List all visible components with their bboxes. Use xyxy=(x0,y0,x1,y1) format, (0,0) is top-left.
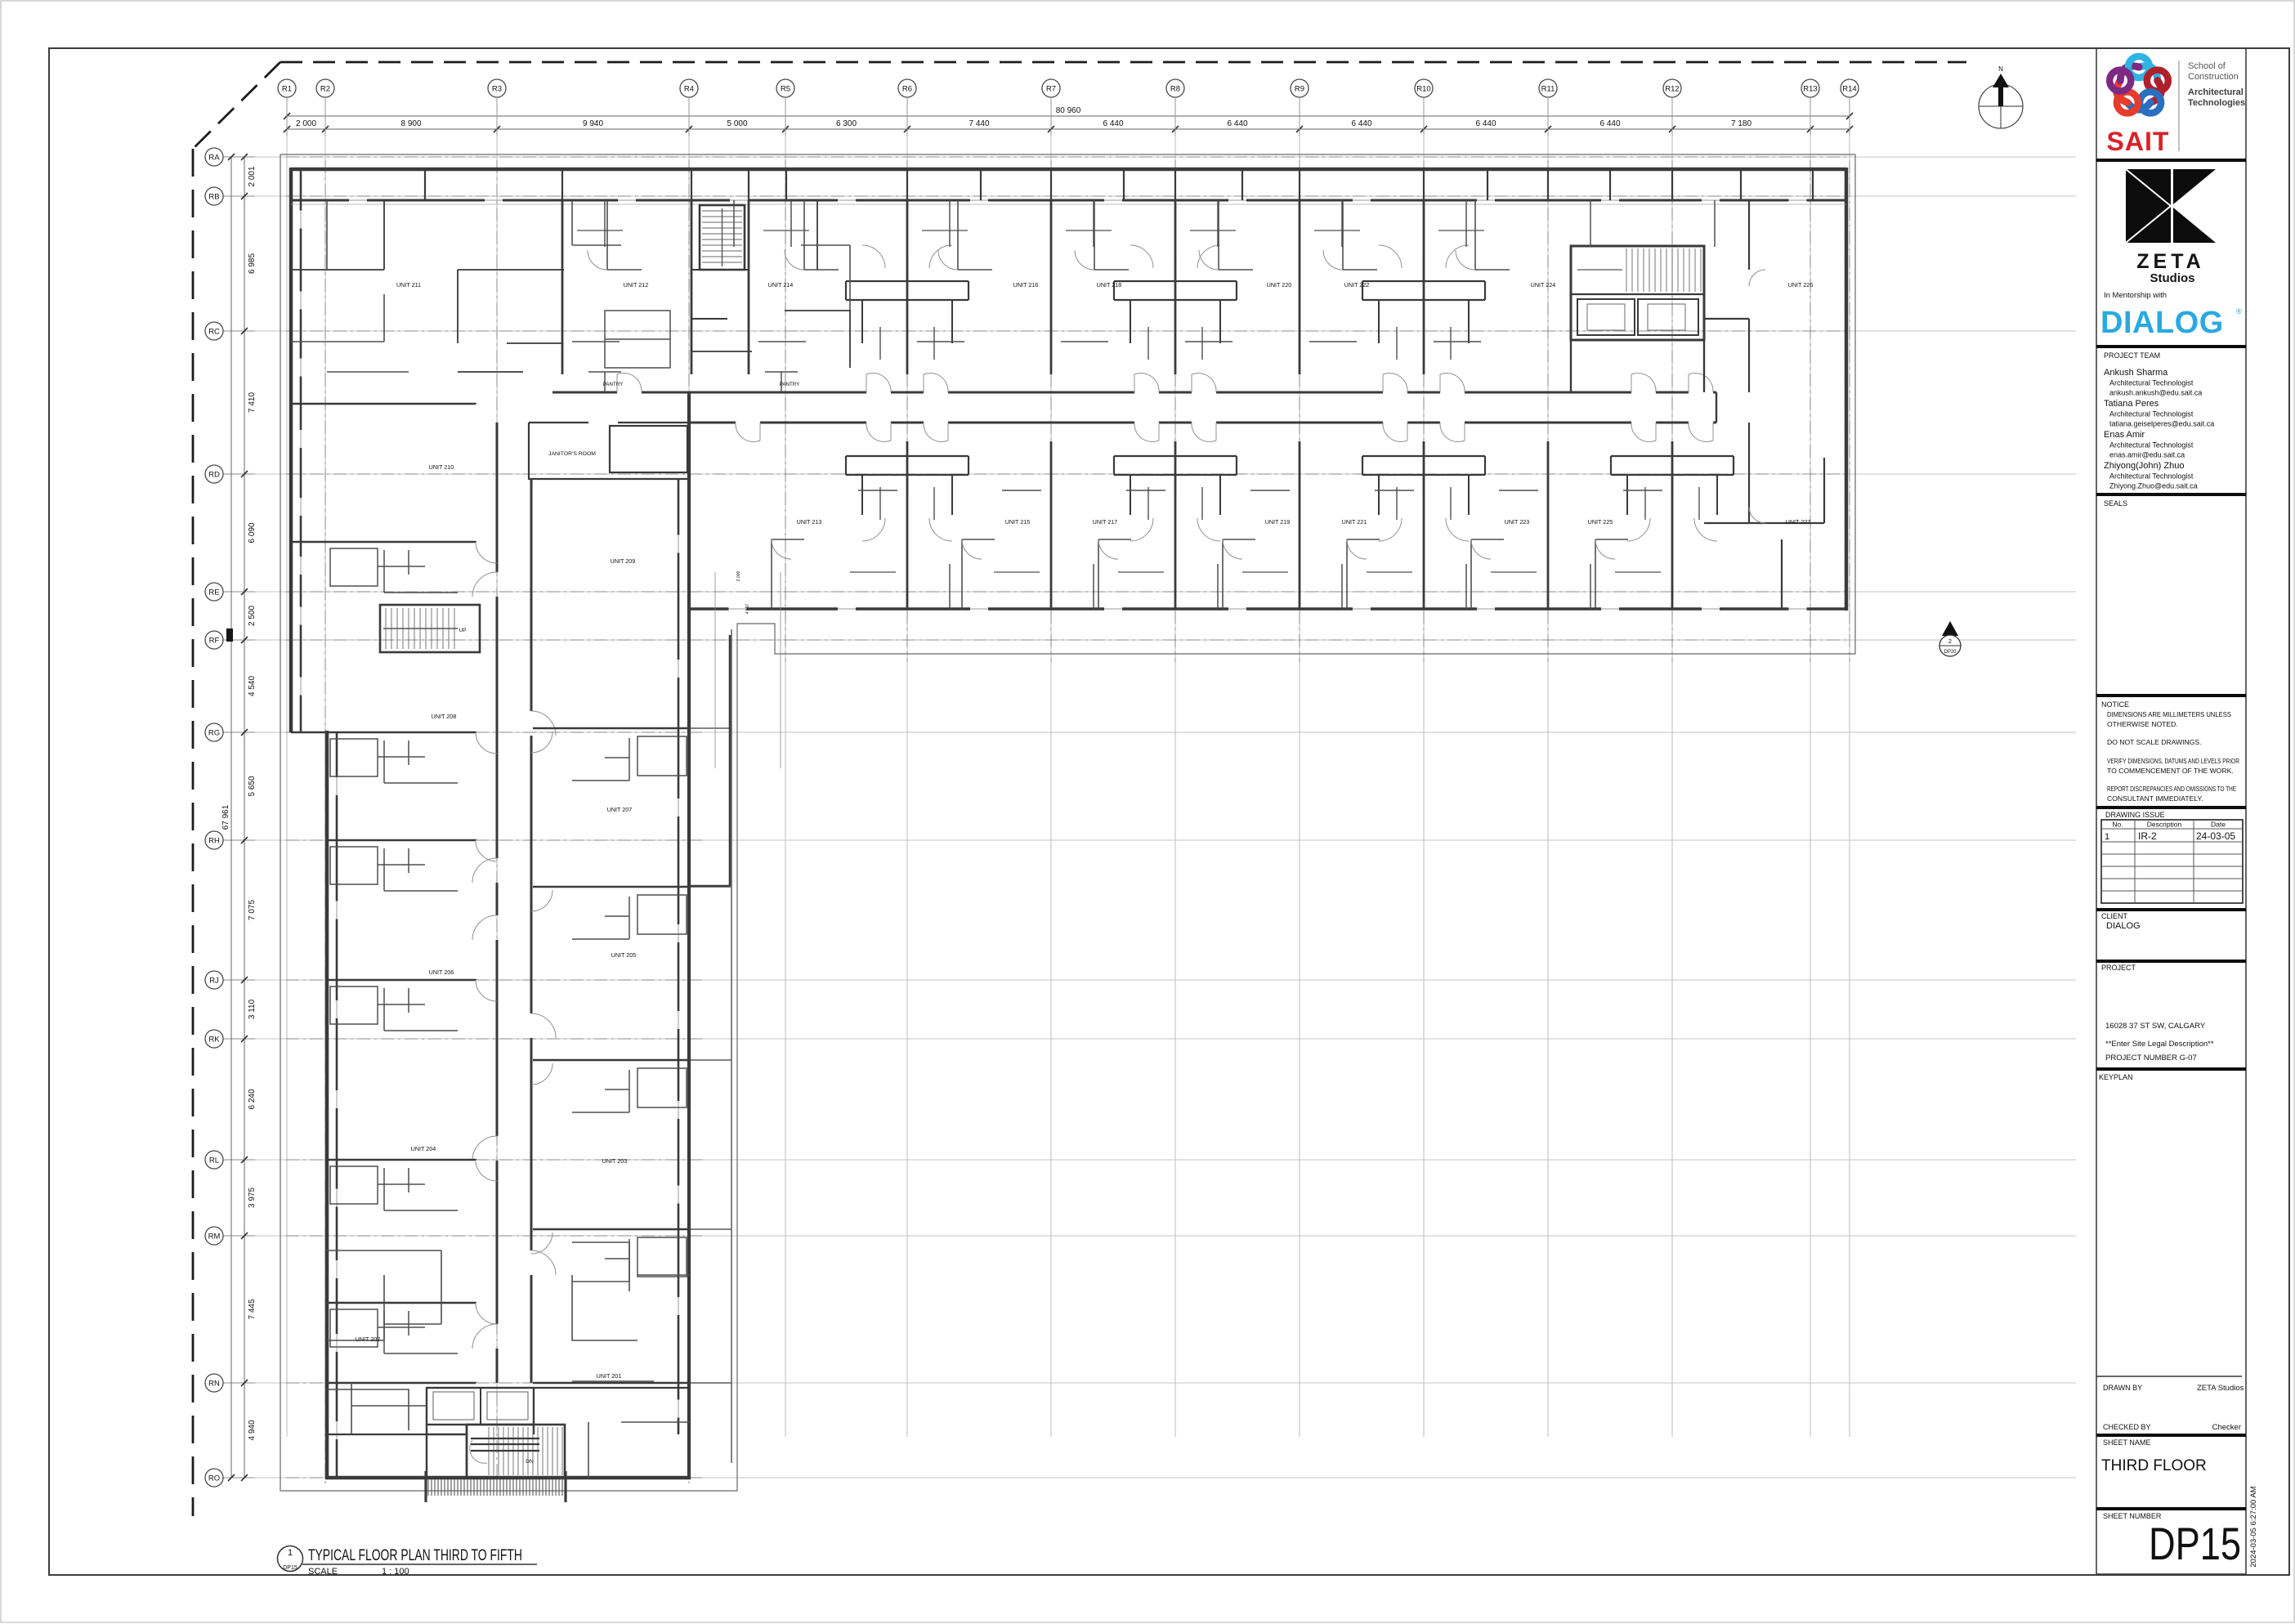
svg-text:Description: Description xyxy=(2147,821,2182,829)
title block divider y1756 xyxy=(2096,1434,2246,1437)
svg-text:2 500: 2 500 xyxy=(248,606,257,626)
svg-text:DIALOG: DIALOG xyxy=(2100,306,2224,340)
svg-text:R9: R9 xyxy=(1295,85,1304,94)
svg-text:Tatiana Peres: Tatiana Peres xyxy=(2104,399,2159,409)
svg-text:R8: R8 xyxy=(1170,85,1180,94)
svg-text:80 960: 80 960 xyxy=(1056,106,1081,115)
exit stair comb hatch xyxy=(425,1471,567,1502)
svg-text:2: 2 xyxy=(1948,638,1952,645)
leftwing west partitions xyxy=(291,403,476,1383)
inner corner mini dim xyxy=(714,572,716,768)
svg-text:N: N xyxy=(1998,65,2003,73)
svg-text:DP20: DP20 xyxy=(1944,650,1957,655)
title block divider y988 xyxy=(2096,806,2246,809)
svg-text:PANTRY: PANTRY xyxy=(780,382,800,387)
svg-text:PROJECT TEAM: PROJECT TEAM xyxy=(2104,351,2160,360)
svg-text:School of: School of xyxy=(2188,61,2226,71)
svg-text:4 940: 4 940 xyxy=(248,1420,257,1440)
east balcony dividers xyxy=(691,728,731,1383)
svg-text:ZETA Studios: ZETA Studios xyxy=(2197,1384,2244,1393)
svg-text:7 180: 7 180 xyxy=(1731,119,1751,128)
svg-text:JANITOR'S ROOM: JANITOR'S ROOM xyxy=(548,451,596,457)
svg-text:1: 1 xyxy=(2105,832,2109,842)
balcony divider stubs xyxy=(425,169,1813,200)
grid lines dash-dot in building xyxy=(286,157,1850,1483)
window wall RB xyxy=(291,199,1846,201)
svg-text:6 440: 6 440 xyxy=(1227,119,1247,128)
pantry unit 212 xyxy=(588,372,621,392)
stair1 lobby walls xyxy=(691,270,749,319)
svg-text:REPORT DISCREPANCIES AND OMISS: REPORT DISCREPANCIES AND OMISSIONS TO TH… xyxy=(2107,785,2236,793)
svg-text:TYPICAL FLOOR PLAN THIRD TO F: TYPICAL FLOOR PLAN THIRD TO FIFTH xyxy=(308,1547,522,1564)
svg-text:6 090: 6 090 xyxy=(248,522,257,543)
svg-text:CONSULTANT IMMEDIATELY.: CONSULTANT IMMEDIATELY. xyxy=(2107,794,2203,803)
svg-text:SAIT: SAIT xyxy=(2107,127,2170,156)
svg-text:RO: RO xyxy=(208,1474,220,1483)
svg-text:6 440: 6 440 xyxy=(1475,119,1496,128)
entry cluster upper units x1438 xyxy=(1114,245,1237,360)
svg-text:**Enter Site Legal Description: **Enter Site Legal Description** xyxy=(2105,1040,2214,1049)
unit 202 extra xyxy=(327,1275,427,1434)
svg-text:UNIT 208: UNIT 208 xyxy=(432,713,457,720)
grid lines light xyxy=(223,97,2076,1478)
left dimension string xyxy=(241,154,257,1481)
svg-text:DRAWING ISSUE: DRAWING ISSUE xyxy=(2105,811,2165,819)
svg-text:RC: RC xyxy=(208,328,220,337)
svg-text:UNIT 226: UNIT 226 xyxy=(1788,281,1814,289)
unit interior packs top wing xyxy=(572,200,1662,609)
svg-text:UNIT 224: UNIT 224 xyxy=(1531,281,1556,289)
svg-text:UNIT 209: UNIT 209 xyxy=(611,557,636,565)
svg-text:UNIT 205: UNIT 205 xyxy=(611,951,637,959)
property line top xyxy=(280,61,1966,64)
svg-text:Date: Date xyxy=(2211,821,2226,829)
svg-text:UNIT 201: UNIT 201 xyxy=(597,1372,622,1380)
exterior wall west xyxy=(291,168,327,1479)
svg-text:R6: R6 xyxy=(902,85,912,94)
corridor door arcs xyxy=(617,373,1713,441)
exterior wall leftwing east xyxy=(687,392,691,1479)
exterior wall top xyxy=(291,168,1846,172)
title block divider y1846 xyxy=(2096,1507,2246,1510)
svg-text:UNIT 219: UNIT 219 xyxy=(1265,518,1291,526)
corridor south wall xyxy=(689,422,1716,424)
svg-text:UNIT 227: UNIT 227 xyxy=(1786,518,1811,526)
title block thin divider xyxy=(2096,1376,2242,1377)
svg-text:®: ® xyxy=(2236,307,2242,315)
leftwing corridor west wall xyxy=(496,423,499,1383)
svg-text:RJ: RJ xyxy=(209,977,219,986)
leftwing corridor east wall xyxy=(530,479,533,1383)
svg-text:UNIT 202: UNIT 202 xyxy=(356,1335,381,1343)
svg-text:UNIT 225: UNIT 225 xyxy=(1588,518,1613,526)
svg-text:PROJECT: PROJECT xyxy=(2101,964,2136,972)
svg-text:ZETA: ZETA xyxy=(2136,250,2204,273)
title block divider y424 xyxy=(2096,345,2246,348)
lower unit partition walls xyxy=(907,441,1672,609)
svg-text:7 075: 7 075 xyxy=(248,900,257,920)
svg-text:9 940: 9 940 xyxy=(583,119,603,128)
stair bottom leftwing DN xyxy=(427,1425,565,1478)
svg-text:SEALS: SEALS xyxy=(2104,499,2127,508)
section marker 2/DP20 xyxy=(1939,621,1961,656)
svg-text:6 440: 6 440 xyxy=(1599,119,1620,128)
svg-text:RN: RN xyxy=(208,1380,220,1389)
unit 212 rooms xyxy=(572,200,850,311)
svg-text:4 597: 4 597 xyxy=(745,604,750,615)
svg-text:Architectural Technologist: Architectural Technologist xyxy=(2109,379,2194,387)
svg-text:Zhiyong(John) Zhuo: Zhiyong(John) Zhuo xyxy=(2104,461,2184,471)
top wing closet stubs xyxy=(605,200,1715,609)
svg-text:R7: R7 xyxy=(1046,85,1056,94)
svg-text:RM: RM xyxy=(208,1233,221,1241)
svg-text:Architectural Technologist: Architectural Technologist xyxy=(2109,410,2194,418)
svg-text:R1: R1 xyxy=(282,85,292,94)
svg-text:UNIT 222: UNIT 222 xyxy=(1344,281,1370,289)
svg-text:R3: R3 xyxy=(492,85,502,94)
svg-text:DO NOT SCALE DRAWINGS.: DO NOT SCALE DRAWINGS. xyxy=(2107,738,2202,746)
svg-text:In Mentorship with: In Mentorship with xyxy=(2104,291,2167,300)
svg-text:RH: RH xyxy=(208,837,220,846)
svg-text:UNIT 203: UNIT 203 xyxy=(602,1157,628,1165)
property line diagonal xyxy=(193,62,280,149)
svg-text:5 000: 5 000 xyxy=(727,119,747,128)
svg-text:RE: RE xyxy=(208,588,219,597)
title block divider y1308 xyxy=(2096,1067,2246,1071)
svg-text:2 000: 2 000 xyxy=(296,119,316,128)
title block divider y851 xyxy=(2096,694,2246,697)
exterior wall right xyxy=(1845,168,1849,611)
entry cluster upper units x1742 xyxy=(1362,245,1485,360)
window wall west upper xyxy=(300,169,302,732)
title block divider y605 xyxy=(2096,493,2246,496)
entry cluster upper units x1110 xyxy=(846,245,969,360)
svg-text:1: 1 xyxy=(288,1548,293,1558)
window wall topwing south xyxy=(689,608,1846,610)
unit 211 interior walls xyxy=(291,200,564,372)
svg-text:7 440: 7 440 xyxy=(969,119,989,128)
svg-text:6 985: 6 985 xyxy=(248,253,257,274)
lobby bottom walls xyxy=(327,1388,689,1434)
svg-text:RA: RA xyxy=(208,154,220,163)
notice block xyxy=(2101,700,2239,803)
elevators bottom leftwing xyxy=(427,1388,534,1425)
svg-text:SHEET NAME: SHEET NAME xyxy=(2103,1438,2150,1447)
stair top-wing mid xyxy=(700,205,745,270)
title block divider y1176 xyxy=(2096,960,2246,963)
svg-text:UNIT 220: UNIT 220 xyxy=(1267,281,1292,289)
unit 201 extra xyxy=(572,1242,689,1478)
svg-text:4 540: 4 540 xyxy=(248,676,257,696)
north arrow xyxy=(1979,65,2023,128)
svg-text:R2: R2 xyxy=(320,85,330,94)
window wall west lower xyxy=(336,732,338,1478)
svg-text:TO COMMENCEMENT OF THE WORK.: TO COMMENCEMENT OF THE WORK. xyxy=(2107,767,2234,775)
svg-text:2024-03-05 6:27:00 AM: 2024-03-05 6:27:00 AM xyxy=(2249,1486,2258,1567)
svg-text:Enas Amir: Enas Amir xyxy=(2104,430,2145,440)
svg-text:6 440: 6 440 xyxy=(1103,119,1123,128)
svg-text:ankush.ankush@edu.sait.ca: ankush.ankush@edu.sait.ca xyxy=(2109,389,2202,397)
corner terrace wall xyxy=(729,635,731,886)
svg-text:R14: R14 xyxy=(1842,85,1856,94)
svg-text:KEYPLAN: KEYPLAN xyxy=(2099,1073,2133,1081)
unit 201 interior xyxy=(572,1275,689,1381)
svg-text:enas.amir@edu.sait.ca: enas.amir@edu.sait.ca xyxy=(2109,451,2185,459)
title block borders xyxy=(2096,48,2097,1574)
svg-text:R13: R13 xyxy=(1803,85,1817,94)
corridor east cap xyxy=(1716,392,1717,423)
corridor north wall xyxy=(552,391,1716,394)
svg-text:R12: R12 xyxy=(1665,85,1679,94)
svg-text:DRAWN BY: DRAWN BY xyxy=(2103,1384,2142,1392)
drawing issue table xyxy=(2101,811,2243,903)
roof thin outline xyxy=(280,154,1855,1491)
top dimension string xyxy=(284,97,1853,136)
overall dimension 80 960 xyxy=(284,106,1853,119)
svg-text:UNIT 206: UNIT 206 xyxy=(429,969,454,976)
leftwing interior walls texture xyxy=(330,542,687,1353)
svg-text:24-03-05: 24-03-05 xyxy=(2196,830,2235,842)
svg-text:3 110: 3 110 xyxy=(248,999,257,1019)
title block divider y1113 xyxy=(2096,908,2246,911)
unit 211 bath xyxy=(605,311,670,368)
svg-text:SCALE: SCALE xyxy=(308,1567,338,1577)
svg-text:RG: RG xyxy=(208,729,220,738)
unit 212 interior walls xyxy=(691,200,850,368)
svg-text:RD: RD xyxy=(208,471,220,480)
svg-text:Checker: Checker xyxy=(2212,1423,2241,1432)
SAIT logo knot xyxy=(2109,56,2168,113)
svg-text:Architectural Technologist: Architectural Technologist xyxy=(2109,472,2194,481)
svg-text:UNIT 214: UNIT 214 xyxy=(768,281,794,289)
svg-text:Zhiyong.Zhuo@edu.sait.ca: Zhiyong.Zhuo@edu.sait.ca xyxy=(2109,482,2198,490)
svg-text:UP: UP xyxy=(459,628,466,633)
exterior wall leftwing bottom xyxy=(325,1476,691,1480)
entry cluster lower units x2046 xyxy=(1611,456,1734,541)
svg-text:RB: RB xyxy=(208,193,219,202)
title block divider y196 xyxy=(2096,159,2246,162)
svg-text:VERIFY DIMENSIONS, DATUMS AND: VERIFY DIMENSIONS, DATUMS AND LEVELS PRI… xyxy=(2107,757,2239,765)
leftwing east partitions xyxy=(533,728,689,1383)
svg-text:UNIT 221: UNIT 221 xyxy=(1342,518,1367,526)
svg-text:67 961: 67 961 xyxy=(221,804,230,830)
section cut mark xyxy=(226,629,233,642)
svg-text:Studios: Studios xyxy=(2150,271,2195,285)
window sill line RB xyxy=(291,204,1846,205)
svg-text:6 300: 6 300 xyxy=(836,119,857,128)
entry cluster lower units x1742 xyxy=(1362,456,1485,541)
svg-text:UNIT 204: UNIT 204 xyxy=(411,1145,436,1152)
svg-text:7 445: 7 445 xyxy=(248,1299,257,1319)
svg-text:Architectural Technologist: Architectural Technologist xyxy=(2109,441,2194,450)
svg-text:1 : 100: 1 : 100 xyxy=(382,1567,409,1577)
svg-text:16028 37 ST SW, CALGARY: 16028 37 ST SW, CALGARY xyxy=(2105,1022,2206,1031)
svg-text:RL: RL xyxy=(209,1156,219,1165)
svg-text:UNIT 216: UNIT 216 xyxy=(1013,281,1039,289)
pantry unit 214 xyxy=(765,372,798,392)
svg-text:UNIT 212: UNIT 212 xyxy=(624,281,649,289)
svg-text:NOTICE: NOTICE xyxy=(2101,700,2129,709)
svg-text:DP15: DP15 xyxy=(2149,1518,2241,1569)
stair+elevators right xyxy=(1571,246,1704,392)
window wall east leftwing xyxy=(678,479,679,1434)
svg-text:PROJECT NUMBER G-07: PROJECT NUMBER G-07 xyxy=(2105,1054,2197,1063)
janitor room walls xyxy=(529,423,689,479)
svg-text:PANTRY: PANTRY xyxy=(603,382,624,387)
svg-text:UNIT 213: UNIT 213 xyxy=(797,518,822,526)
svg-text:8 900: 8 900 xyxy=(400,119,421,128)
svg-text:UNIT 223: UNIT 223 xyxy=(1505,518,1530,526)
SAIT divider line xyxy=(2178,60,2180,151)
svg-text:tatiana.geiselperes@edu.sait.c: tatiana.geiselperes@edu.sait.ca xyxy=(2109,420,2214,428)
svg-text:R11: R11 xyxy=(1541,85,1555,94)
svg-text:UNIT 211: UNIT 211 xyxy=(396,281,421,289)
svg-text:UNIT 207: UNIT 207 xyxy=(607,806,633,813)
overall dimension 67 961 xyxy=(221,154,235,1481)
entry cluster lower units x1110 xyxy=(846,456,969,541)
svg-text:Ankush Sharma: Ankush Sharma xyxy=(2104,368,2168,378)
unit 202 interior xyxy=(327,1250,441,1430)
svg-text:R5: R5 xyxy=(781,85,790,94)
svg-text:Construction: Construction xyxy=(2188,72,2239,82)
svg-text:DIMENSIONS ARE MILLIMETERS UNL: DIMENSIONS ARE MILLIMETERS UNLESS xyxy=(2107,710,2231,718)
svg-text:UNIT 215: UNIT 215 xyxy=(1005,518,1031,526)
property line west xyxy=(192,149,195,1516)
stair leftwing mid UP xyxy=(380,605,480,652)
unit 226-227 walls xyxy=(1704,200,1824,609)
svg-text:THIRD FLOOR: THIRD FLOOR xyxy=(2101,1457,2207,1474)
svg-text:No.: No. xyxy=(2112,821,2123,829)
svg-text:2 001: 2 001 xyxy=(248,166,257,186)
svg-text:UNIT 217: UNIT 217 xyxy=(1093,518,1118,526)
upper unit partition walls xyxy=(562,200,1424,374)
unit 226 door arcs xyxy=(1749,270,1765,523)
svg-text:R4: R4 xyxy=(684,85,694,94)
svg-text:2 000: 2 000 xyxy=(736,571,741,582)
svg-text:Architectural: Architectural xyxy=(2188,87,2244,97)
svg-text:UNIT 210: UNIT 210 xyxy=(429,463,454,471)
svg-text:Technologies: Technologies xyxy=(2188,98,2245,108)
drawing title xyxy=(278,1546,538,1577)
svg-text:DP15: DP15 xyxy=(283,1565,297,1571)
svg-text:RF: RF xyxy=(209,637,220,646)
unit labels xyxy=(356,281,1814,1380)
svg-text:5 650: 5 650 xyxy=(248,776,257,796)
leftwing corridor door arcs xyxy=(472,572,556,1349)
svg-text:R10: R10 xyxy=(1416,85,1430,94)
svg-text:7 410: 7 410 xyxy=(248,392,257,413)
svg-text:6 440: 6 440 xyxy=(1351,119,1371,128)
project team block xyxy=(2104,351,2214,490)
svg-text:DIALOG: DIALOG xyxy=(2106,921,2141,931)
row grid bubbles RA-RO xyxy=(205,148,255,1487)
svg-text:6 240: 6 240 xyxy=(248,1089,257,1109)
entry cluster lower units x1438 xyxy=(1114,456,1237,541)
svg-text:3 975: 3 975 xyxy=(248,1188,257,1208)
janitor inner closet xyxy=(610,426,687,472)
ZETA logo mark xyxy=(2126,169,2216,243)
east balcony edge leftwing xyxy=(731,629,732,1463)
svg-text:UNIT 218: UNIT 218 xyxy=(1097,281,1122,289)
svg-text:CLIENT: CLIENT xyxy=(2101,912,2128,920)
svg-text:DN: DN xyxy=(526,1459,534,1465)
svg-text:OTHERWISE NOTED.: OTHERWISE NOTED. xyxy=(2107,720,2178,728)
svg-text:CHECKED BY: CHECKED BY xyxy=(2103,1423,2151,1431)
column grid bubbles R1-R14 xyxy=(278,79,1859,97)
svg-text:RK: RK xyxy=(208,1036,220,1045)
unit 211 rooms nw xyxy=(291,200,409,372)
svg-text:IR-2: IR-2 xyxy=(2138,830,2157,842)
